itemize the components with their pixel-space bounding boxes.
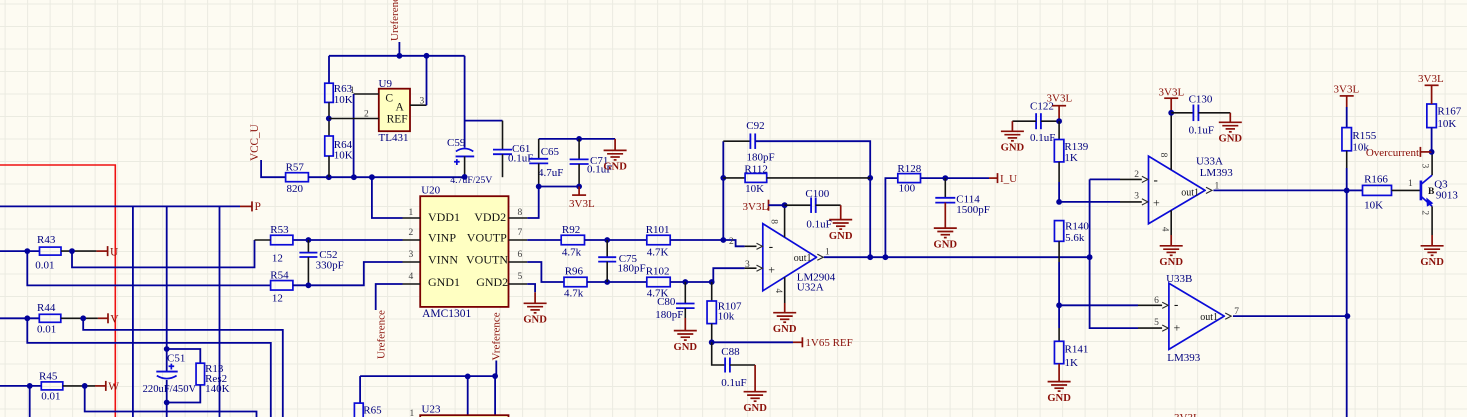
- wire 1V65 REF: [712, 341, 793, 343]
- power 3V3L: [578, 187, 580, 196]
- svg-text:8: 8: [518, 208, 523, 218]
- wire feedback left: [722, 141, 724, 240]
- port Overcurrent: [1420, 151, 1431, 153]
- junction: [351, 174, 357, 180]
- svg-text:3V3L: 3V3L: [1047, 92, 1073, 104]
- wire R54 to pin3: [293, 262, 403, 285]
- svg-text:3: 3: [420, 97, 425, 107]
- wire jog to R54: [27, 251, 270, 285]
- wire VCC_U: [261, 160, 286, 177]
- svg-text:3: 3: [1134, 192, 1139, 202]
- svg-text:1500pF: 1500pF: [956, 204, 990, 216]
- svg-text:2: 2: [1420, 210, 1430, 215]
- svg-text:4.7K: 4.7K: [647, 246, 669, 258]
- wire jog V down 2: [27, 318, 270, 417]
- svg-text:R102: R102: [646, 265, 670, 277]
- svg-text:Ureference: Ureference: [389, 0, 401, 41]
- junction: [465, 374, 471, 380]
- svg-text:0.1uF: 0.1uF: [1030, 132, 1055, 144]
- emitter pin 2: [1431, 206, 1433, 235]
- wire: [61, 250, 96, 252]
- svg-text:GND: GND: [603, 162, 627, 173]
- svg-text:3: 3: [745, 260, 750, 270]
- wire feedback right: [755, 141, 870, 257]
- wire: [464, 156, 466, 177]
- junction: [720, 237, 726, 243]
- junction: [883, 254, 889, 260]
- wire: [495, 361, 497, 377]
- ground U33A: [1160, 246, 1183, 256]
- pin 3: [1142, 199, 1148, 205]
- junction: [369, 174, 375, 180]
- junction: [306, 282, 312, 288]
- svg-text:VOUTP: VOUTP: [467, 231, 507, 245]
- resistor R141: [1058, 305, 1060, 328]
- pin 4 ground: [784, 277, 786, 303]
- svg-text:0.1uF: 0.1uF: [1189, 125, 1214, 137]
- ground C114: [934, 228, 957, 238]
- junction: [462, 174, 468, 180]
- svg-text:VOUTN: VOUTN: [466, 252, 508, 266]
- wire VOUTP: [527, 239, 561, 241]
- wire U33A out: [1213, 189, 1346, 191]
- svg-text:1: 1: [409, 208, 414, 218]
- junction: [682, 279, 688, 285]
- svg-text:LM393: LM393: [1167, 352, 1201, 364]
- resistor R54: [271, 281, 293, 291]
- svg-text:0.01: 0.01: [41, 391, 60, 403]
- svg-text:3V3L: 3V3L: [1159, 86, 1185, 98]
- wire: [308, 176, 464, 178]
- svg-text:2: 2: [1134, 170, 1139, 180]
- ground C80: [674, 331, 697, 341]
- svg-text:1K: 1K: [1064, 152, 1078, 164]
- svg-text:Overcurrent: Overcurrent: [1366, 147, 1419, 159]
- svg-text:2: 2: [409, 228, 414, 238]
- pin stub right: [509, 283, 528, 285]
- svg-text:GND: GND: [1219, 134, 1243, 145]
- resistor R139: [1058, 121, 1060, 139]
- pin stub left: [403, 261, 421, 263]
- wire vertical bus3: [219, 206, 221, 417]
- svg-text:R92: R92: [562, 224, 580, 236]
- red sheet boundary: [0, 165, 115, 417]
- capacitor C130: [1171, 112, 1193, 114]
- svg-text:-: -: [1154, 172, 1158, 187]
- wire jog V down: [83, 318, 283, 417]
- svg-text:10K: 10K: [1364, 200, 1383, 212]
- svg-text:R45: R45: [39, 370, 58, 382]
- svg-text:8: 8: [769, 219, 779, 224]
- svg-text:VINN: VINN: [428, 252, 458, 266]
- svg-text:R65: R65: [363, 404, 382, 416]
- svg-text:R155: R155: [1352, 130, 1376, 142]
- wire: [0, 250, 40, 252]
- svg-text:GND2: GND2: [476, 275, 508, 289]
- resistor R128: [898, 174, 921, 183]
- pin 8 power: [1170, 113, 1172, 170]
- svg-text:3V3L: 3V3L: [743, 201, 769, 213]
- svg-text:180pF: 180pF: [655, 309, 683, 321]
- wire jog to R53: [72, 240, 255, 267]
- pin stub: [1120, 178, 1142, 180]
- svg-text:1: 1: [410, 409, 415, 417]
- wire GND1 Ureference: [376, 284, 403, 310]
- ground GND2: [524, 303, 547, 313]
- wire top: [539, 138, 615, 140]
- junction: [306, 237, 312, 243]
- wire bottom: [539, 186, 579, 188]
- wire U33B out: [1233, 315, 1347, 317]
- svg-text:12: 12: [272, 293, 283, 305]
- svg-text:0.1uF: 0.1uF: [721, 377, 746, 389]
- pin 8 power: [784, 205, 786, 237]
- junction: [1056, 118, 1062, 124]
- svg-text:U23: U23: [422, 403, 441, 415]
- wire signal to pins 2/5: [1090, 179, 1138, 328]
- wire: [328, 156, 330, 177]
- svg-text:+: +: [1174, 320, 1181, 334]
- svg-text:C100: C100: [805, 188, 829, 200]
- wire: [465, 120, 503, 122]
- svg-text:R43: R43: [37, 234, 56, 246]
- junction: [326, 116, 332, 122]
- pin stub right: [509, 261, 528, 263]
- resistor R43: [40, 247, 62, 255]
- junction: [604, 279, 610, 285]
- svg-text:VCC_U: VCC_U: [249, 124, 261, 161]
- svg-text:VDD1: VDD1: [428, 210, 460, 224]
- svg-text:100: 100: [899, 182, 916, 194]
- port 1V65 REF: [793, 341, 802, 343]
- svg-text:GND: GND: [829, 231, 853, 242]
- ground Q3: [1421, 246, 1444, 256]
- port P: [240, 205, 252, 207]
- wire output: [824, 256, 1091, 258]
- svg-text:0.01: 0.01: [37, 323, 56, 335]
- svg-text:4.7k: 4.7k: [562, 246, 582, 258]
- junction: [326, 174, 332, 180]
- junction: [1429, 149, 1435, 155]
- svg-text:TL431: TL431: [379, 132, 409, 144]
- op-amp U33B LM393: [1169, 283, 1224, 349]
- svg-text:LM393: LM393: [1200, 167, 1234, 179]
- svg-text:6: 6: [518, 250, 523, 260]
- svg-text:10K: 10K: [334, 150, 353, 162]
- pin stub: [1138, 327, 1162, 329]
- junction: [492, 373, 498, 379]
- pin stub right: [509, 217, 528, 219]
- pin 6: [1162, 302, 1168, 308]
- junction: [867, 254, 873, 260]
- svg-text:R166: R166: [1364, 173, 1388, 185]
- wire to pin3: [670, 268, 744, 282]
- svg-text:C: C: [385, 92, 393, 104]
- junction: [1344, 188, 1350, 194]
- svg-text:0.01: 0.01: [35, 260, 54, 272]
- svg-text:R53: R53: [270, 224, 289, 236]
- wire R128 tap: [885, 178, 897, 257]
- pin stub: [1138, 304, 1162, 306]
- svg-text:GND: GND: [934, 239, 958, 250]
- svg-text:+: +: [1153, 196, 1160, 210]
- wire R13 bottom: [167, 385, 201, 403]
- svg-text:1V65 REF: 1V65 REF: [805, 337, 852, 349]
- pin 1: [354, 93, 379, 95]
- svg-text:R57: R57: [286, 162, 305, 174]
- wire: [426, 56, 428, 105]
- junction: [164, 346, 170, 352]
- svg-text:Ureference: Ureference: [376, 310, 388, 359]
- svg-text:1: 1: [825, 248, 830, 258]
- wire: [63, 385, 95, 387]
- svg-text:12: 12: [272, 252, 283, 264]
- wire: [1058, 262, 1060, 305]
- svg-text:330pF: 330pF: [316, 259, 344, 271]
- pin stub left: [403, 283, 421, 285]
- svg-text:I_U: I_U: [1000, 173, 1017, 185]
- ground C100: [829, 220, 852, 230]
- pin 5: [1162, 325, 1168, 331]
- junction: [397, 53, 403, 59]
- resistor R44: [39, 314, 61, 322]
- wire to pin3 U33A: [1059, 201, 1120, 203]
- ground GND2: [527, 284, 535, 292]
- wire to U20 pin8: [527, 187, 539, 219]
- capacitor C80: [684, 282, 686, 304]
- resistor R166: [1347, 189, 1363, 191]
- resistor R102: [647, 277, 670, 287]
- svg-text:7: 7: [518, 228, 523, 238]
- resistor R112: [723, 177, 745, 179]
- svg-text:U: U: [110, 246, 119, 258]
- svg-text:0.1uF: 0.1uF: [806, 218, 831, 230]
- wire vertical bus1: [132, 206, 134, 417]
- junction: [1087, 254, 1093, 260]
- capacitor C75: [606, 240, 608, 257]
- pin 2 stub: [745, 245, 757, 247]
- wire jog W: [85, 386, 257, 417]
- ground U32A: [773, 313, 796, 323]
- svg-text:8: 8: [1158, 153, 1168, 158]
- svg-text:GND: GND: [523, 315, 547, 326]
- junction: [536, 184, 542, 190]
- resistor R13: [196, 363, 205, 385]
- svg-text:820: 820: [287, 183, 304, 195]
- junction: [942, 175, 948, 181]
- svg-text:1K: 1K: [1065, 357, 1079, 369]
- svg-text:R141: R141: [1065, 343, 1089, 355]
- svg-text:R167: R167: [1437, 106, 1461, 118]
- op-amp U32A LM2904: [763, 224, 817, 291]
- pin 2: [329, 118, 379, 120]
- resistor R107: [711, 282, 713, 301]
- wire vertical bus2 (C51 column): [166, 206, 168, 371]
- svg-text:W: W: [108, 381, 119, 393]
- capacitor C114: [944, 178, 946, 198]
- resistor R155: [1346, 107, 1348, 128]
- svg-text:GND: GND: [674, 342, 698, 353]
- pin stub left: [403, 217, 421, 219]
- pin 4 ground: [1170, 210, 1172, 235]
- capacitor C92: [723, 140, 750, 142]
- wire U20 pin1: [372, 177, 403, 218]
- wire to pin2: [670, 240, 744, 246]
- svg-text:A: A: [396, 102, 405, 114]
- junction: [576, 184, 582, 190]
- svg-text:5: 5: [1154, 318, 1159, 328]
- svg-text:Vreference: Vreference: [491, 312, 503, 360]
- svg-text:U33B: U33B: [1166, 273, 1192, 285]
- wire: [1058, 182, 1060, 202]
- wire: [494, 376, 496, 417]
- svg-text:GND: GND: [1420, 257, 1444, 268]
- svg-text:VINP: VINP: [428, 231, 456, 245]
- wire pin1 to node: [353, 94, 355, 177]
- junction: [69, 248, 75, 254]
- svg-text:R128: R128: [897, 163, 921, 175]
- svg-text:C80: C80: [657, 296, 676, 308]
- svg-text:4: 4: [1159, 227, 1169, 232]
- svg-text:4: 4: [409, 272, 414, 282]
- svg-text:3V3L: 3V3L: [1334, 83, 1360, 95]
- op-amp U33A LM393: [1149, 156, 1206, 224]
- svg-text:5.6k: 5.6k: [1065, 232, 1085, 244]
- junction: [1168, 110, 1174, 116]
- resistor R65: [354, 403, 363, 417]
- wire down: [1346, 190, 1348, 417]
- junction: [27, 383, 33, 389]
- junction: [1345, 313, 1351, 319]
- pin 3: [410, 104, 427, 106]
- wire R63/R64 chain: [328, 56, 330, 83]
- svg-text:V: V: [110, 314, 119, 326]
- port W: [95, 385, 106, 387]
- ground: [604, 150, 627, 160]
- junction: [82, 383, 88, 389]
- svg-text:R101: R101: [646, 224, 670, 236]
- junction: [424, 53, 430, 59]
- capacitor C71: [578, 139, 580, 160]
- svg-text:R112: R112: [744, 164, 767, 176]
- svg-text:180pF: 180pF: [747, 152, 775, 164]
- port U: [96, 250, 107, 252]
- svg-text:out1: out1: [794, 253, 812, 264]
- wire down: [467, 376, 469, 417]
- ground C122: [1001, 131, 1024, 141]
- resistor R64: [325, 136, 334, 156]
- junction: [80, 315, 86, 321]
- junction: [782, 202, 788, 208]
- wire R13 top: [167, 349, 201, 363]
- svg-text:2: 2: [364, 110, 369, 120]
- wire: [166, 380, 168, 417]
- svg-text:U33A: U33A: [1196, 155, 1223, 167]
- pin 1 output: [1206, 187, 1212, 193]
- wire to pin6 U33B: [1059, 304, 1138, 306]
- svg-text:VDD2: VDD2: [474, 210, 506, 224]
- svg-text:C65: C65: [541, 146, 560, 158]
- wire: [328, 102, 330, 136]
- pin 2: [1142, 176, 1148, 182]
- wire: [0, 385, 41, 387]
- svg-text:GND: GND: [1047, 393, 1071, 404]
- svg-text:3: 3: [1420, 164, 1430, 169]
- svg-text:REF: REF: [387, 114, 408, 126]
- svg-text:GND: GND: [1001, 143, 1025, 154]
- transistor Q3: [1420, 181, 1423, 201]
- wire top rail: [329, 55, 465, 57]
- svg-text:180pF: 180pF: [618, 263, 646, 275]
- ground R141: [1048, 382, 1071, 392]
- svg-text:R44: R44: [37, 302, 56, 314]
- svg-text:4.7uF/25V: 4.7uF/25V: [450, 175, 492, 186]
- svg-text:GND: GND: [743, 403, 767, 414]
- svg-text:out1: out1: [1181, 187, 1199, 198]
- svg-text:10k: 10k: [718, 311, 735, 323]
- wire: [1346, 168, 1348, 190]
- wire: [587, 281, 647, 283]
- capacitor C88: [712, 342, 725, 365]
- svg-text:10K: 10K: [745, 183, 764, 195]
- resistor R101: [647, 235, 670, 245]
- wire: [0, 317, 39, 319]
- wire R53 left: [255, 239, 271, 241]
- svg-text:3V3L: 3V3L: [569, 198, 595, 210]
- svg-text:C92: C92: [746, 120, 764, 132]
- pin stub left: [403, 239, 421, 241]
- ground GND C71: [614, 139, 616, 151]
- resistor R53: [271, 235, 293, 245]
- svg-text:3V3L: 3V3L: [1174, 412, 1200, 417]
- junction: [1056, 302, 1062, 308]
- resistor R167: [1427, 104, 1437, 128]
- svg-text:R96: R96: [565, 265, 584, 277]
- svg-text:10K: 10K: [1437, 118, 1456, 130]
- capacitor C65: [538, 139, 540, 159]
- junction: [709, 279, 715, 285]
- junction: [24, 315, 30, 321]
- svg-text:-: -: [1174, 297, 1178, 312]
- wire VOUTN jog: [527, 262, 564, 282]
- svg-text:C88: C88: [721, 346, 740, 358]
- svg-text:-: -: [769, 238, 773, 253]
- junction: [576, 136, 582, 142]
- wire to R65: [359, 376, 361, 403]
- svg-text:U20: U20: [421, 185, 440, 197]
- svg-text:6: 6: [1154, 296, 1159, 306]
- collector pin 3: [1431, 152, 1433, 175]
- wire: [61, 317, 98, 319]
- svg-text:3: 3: [409, 250, 414, 260]
- pin 1 output: [817, 254, 823, 260]
- svg-text:P: P: [255, 201, 261, 213]
- pin 7 output: [1225, 313, 1231, 319]
- pin stub: [1120, 201, 1142, 203]
- resistor R140: [1054, 221, 1063, 242]
- pin stub right: [509, 239, 528, 241]
- resistor R57: [286, 173, 309, 182]
- wire base: [1392, 189, 1421, 191]
- svg-text:9013: 9013: [1436, 189, 1459, 201]
- port I_U: [989, 177, 998, 179]
- svg-text:C59: C59: [447, 137, 466, 149]
- svg-text:out1: out1: [1200, 312, 1218, 323]
- ground C130: [1219, 122, 1242, 132]
- svg-text:2: 2: [729, 237, 734, 247]
- ground C88: [744, 392, 767, 402]
- resistor R96: [564, 277, 587, 287]
